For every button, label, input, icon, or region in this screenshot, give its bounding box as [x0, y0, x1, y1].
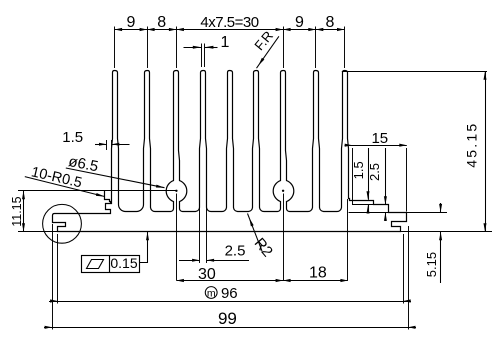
svg-text:99: 99 — [218, 309, 237, 328]
svg-text:2.5: 2.5 — [367, 163, 382, 181]
svg-text:4x7.5=30: 4x7.5=30 — [200, 14, 258, 31]
svg-text:m: m — [207, 287, 216, 299]
svg-text:2.5: 2.5 — [225, 242, 246, 259]
svg-text:1: 1 — [221, 34, 230, 51]
svg-text:15: 15 — [371, 130, 388, 147]
svg-text:18: 18 — [309, 264, 327, 281]
svg-text:11.15: 11.15 — [10, 196, 24, 226]
svg-text:45.15: 45.15 — [464, 122, 480, 168]
svg-text:1.5: 1.5 — [62, 129, 83, 146]
svg-text:30: 30 — [198, 266, 216, 283]
svg-text:1.5: 1.5 — [351, 161, 366, 179]
svg-text:8: 8 — [157, 14, 166, 31]
svg-text:9: 9 — [295, 14, 304, 31]
svg-text:0.15: 0.15 — [110, 255, 137, 271]
svg-text:96: 96 — [221, 285, 238, 302]
svg-text:8: 8 — [326, 14, 335, 31]
svg-text:9: 9 — [126, 14, 135, 31]
svg-text:5.15: 5.15 — [424, 252, 439, 277]
